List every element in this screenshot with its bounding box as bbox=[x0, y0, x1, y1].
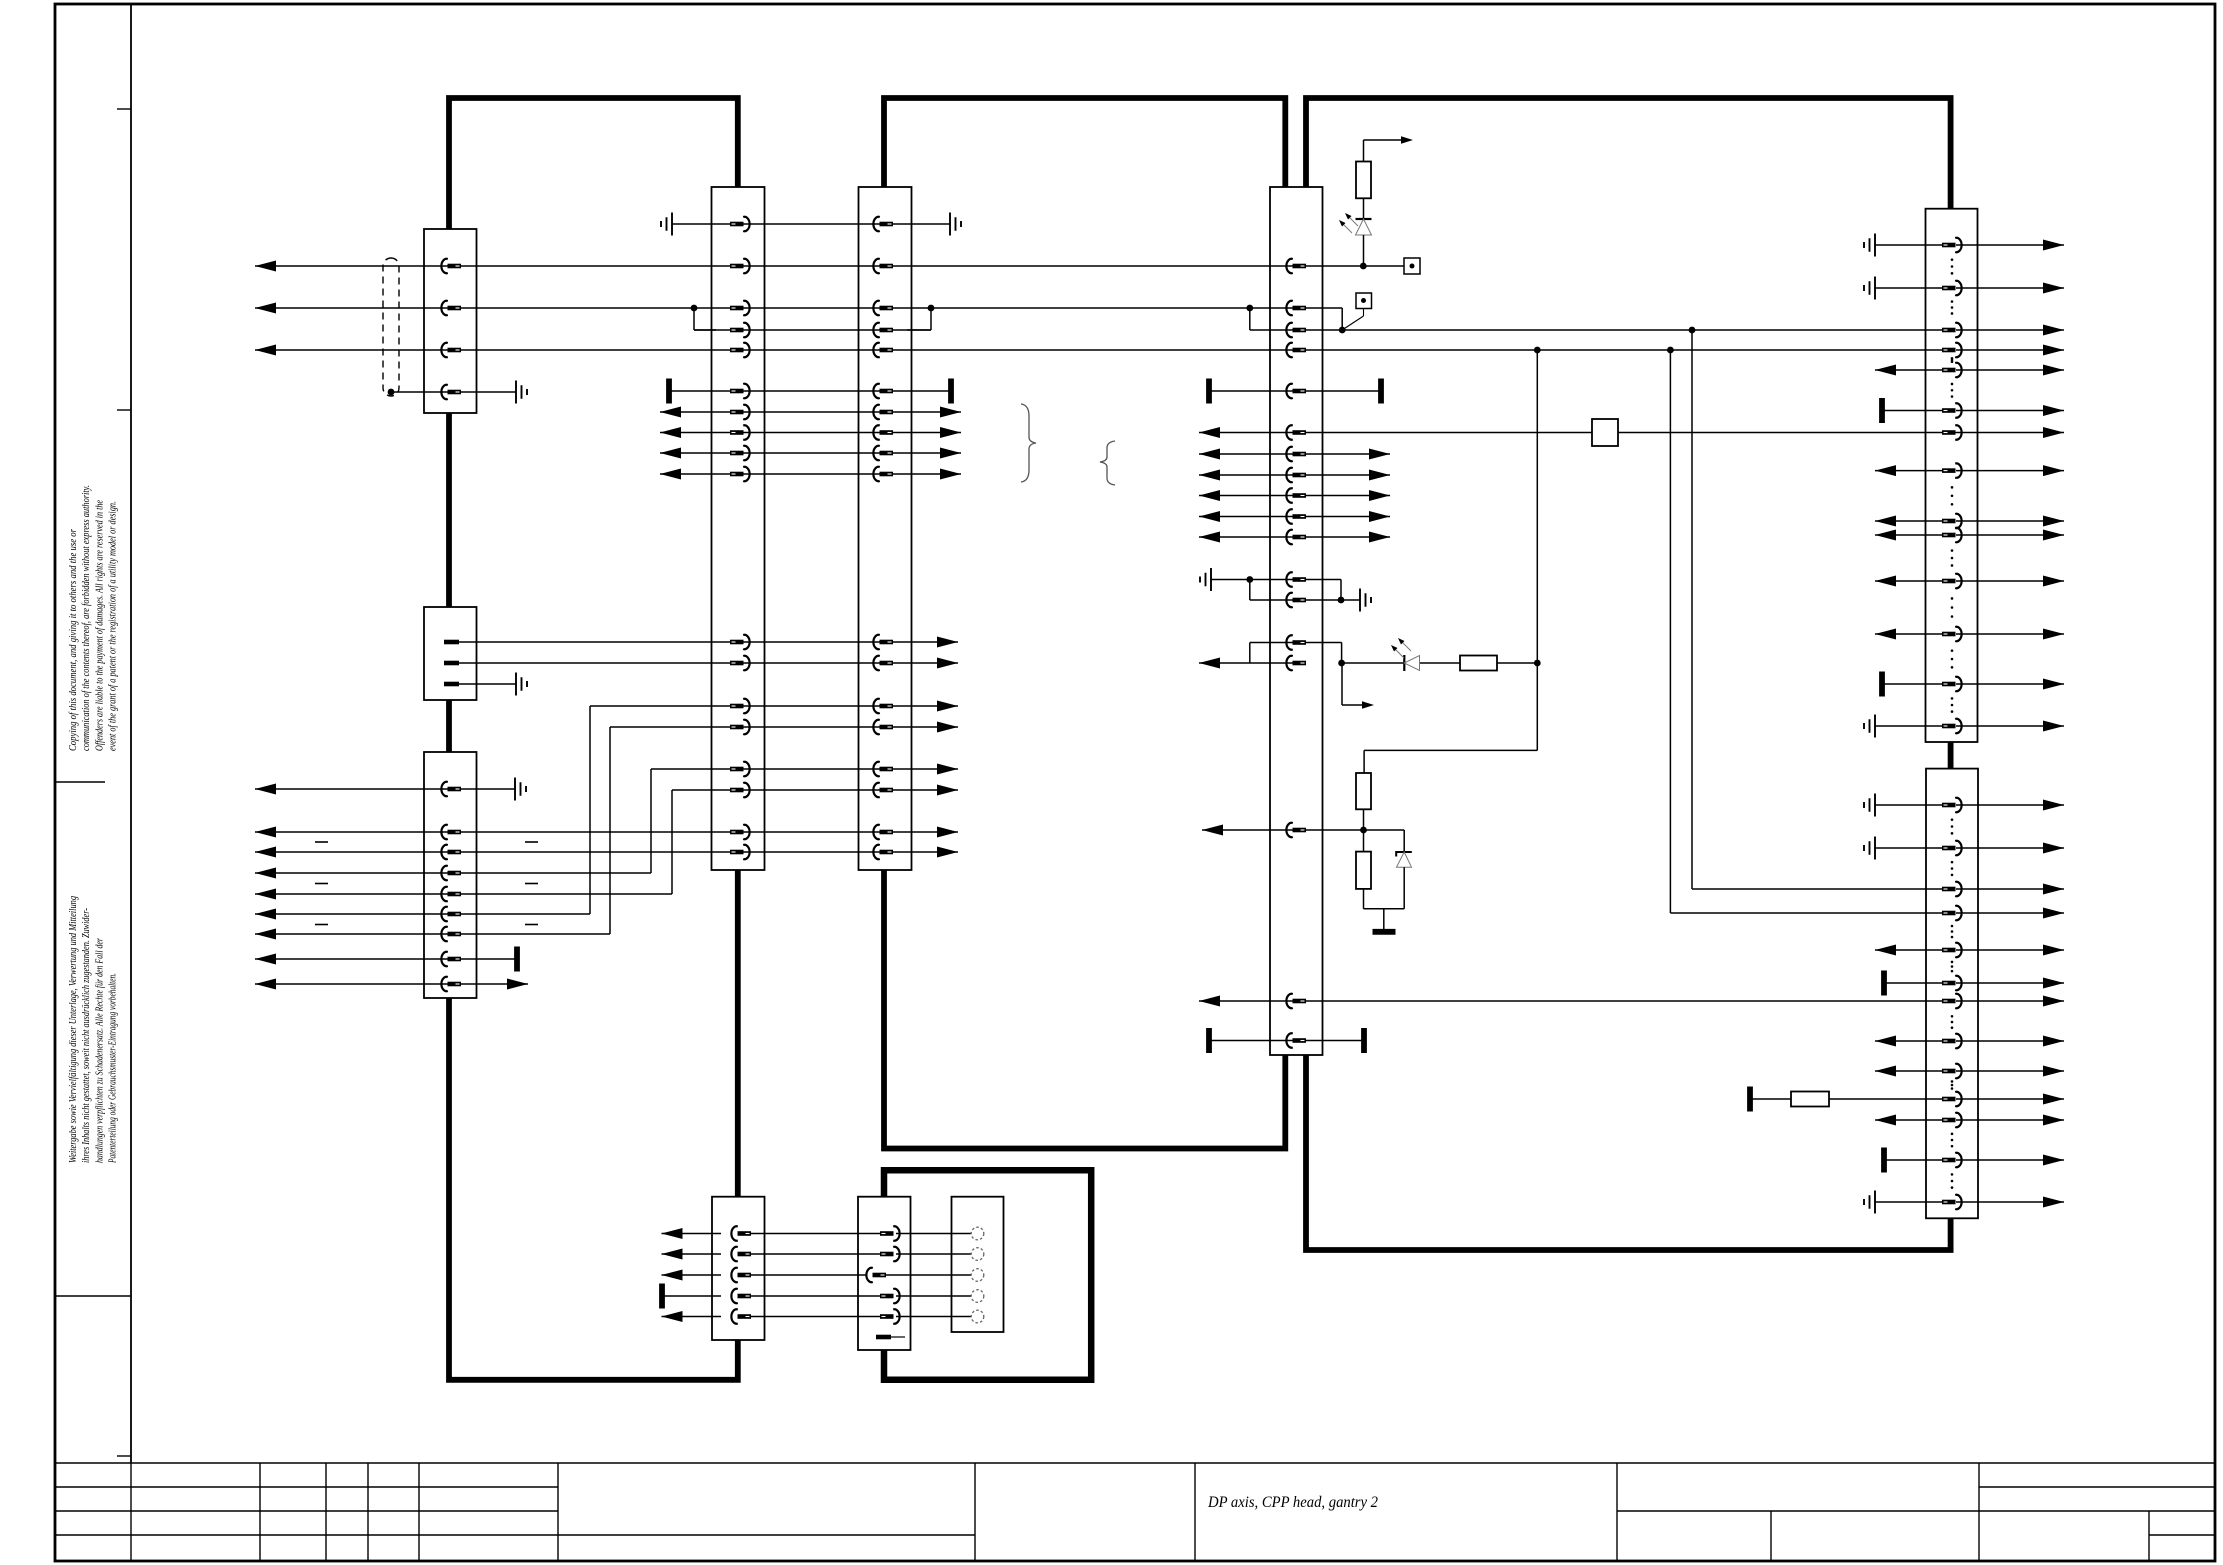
wire row 1254 X9-X11 bbox=[662, 1249, 972, 1260]
pin X6.9 bbox=[1286, 488, 1306, 502]
pin X6.17 bbox=[1286, 994, 1306, 1008]
svg-text:ihres Inhalts nicht gestattet,: ihres Inhalts nicht gestattet, soweit ni… bbox=[81, 908, 92, 1163]
pin X1.3 bbox=[441, 343, 461, 357]
thick bus X3 bottom loop to X9 bottom bbox=[449, 998, 738, 1380]
shield capsule of cable at X1 bbox=[383, 258, 399, 396]
wire row 370 X7.5 bbox=[1875, 365, 2064, 376]
pin X4.2 bbox=[730, 259, 750, 273]
pin X3.9 bbox=[441, 977, 461, 991]
pin X10.2 bbox=[880, 1247, 900, 1261]
pin X6.1 bbox=[1286, 259, 1306, 273]
pin X1.1 bbox=[441, 259, 461, 273]
svg-text:Copying of this document, and: Copying of this document, and giving it … bbox=[68, 529, 79, 751]
pin X9.4 bbox=[731, 1289, 751, 1303]
wire row 537 arrows X6 bbox=[1199, 532, 1390, 543]
pin X8.2 bbox=[1942, 841, 1962, 855]
pin X2.2 (plain) bbox=[444, 661, 459, 666]
wire row 1160 X8.12 bbox=[1884, 1148, 2064, 1173]
wire row 1040.5 X6.18 term-term bbox=[1209, 1028, 1364, 1053]
ground right of X1.4 bbox=[516, 381, 527, 404]
wire row 642.5 X6.14 bbox=[1250, 643, 1305, 664]
pin X8.11 bbox=[1942, 1113, 1962, 1127]
svg-text:handlungen verpflichten zu Sch: handlungen verpflichten zu Schadenersatz… bbox=[94, 938, 105, 1163]
pin X4.4 bbox=[730, 323, 750, 337]
pin X6.11 bbox=[1286, 530, 1306, 544]
pin X6.3 bbox=[1286, 323, 1306, 337]
elbow right X6.12 to gnd bbox=[1305, 580, 1371, 612]
pin X6.13 bbox=[1286, 593, 1306, 607]
wire row 727 riser to arrow bbox=[610, 722, 958, 733]
pin X8.1 bbox=[1942, 798, 1962, 812]
junction row 663 bbox=[1338, 660, 1345, 667]
wire row 950 X8.5 bbox=[1875, 945, 2064, 956]
pin separator dots X7 bbox=[1951, 258, 1954, 713]
pin X5.15 bbox=[873, 762, 893, 776]
pin X5.9 bbox=[873, 446, 893, 460]
terminator left row391 bbox=[666, 379, 672, 404]
pin X3.5 bbox=[441, 887, 461, 901]
pin X6.2 bbox=[1286, 301, 1306, 315]
pin X7.8 bbox=[1942, 463, 1962, 477]
pin X4.18 bbox=[730, 845, 750, 859]
wire row 852 X3 through X4/X5 bbox=[255, 847, 958, 858]
pin X5.4 bbox=[873, 323, 893, 337]
wire row 412 arrows X4/X5 bbox=[660, 407, 961, 418]
pin X4.8 bbox=[730, 425, 750, 439]
pin X8.10 bbox=[1942, 1092, 1962, 1106]
pin X10.4 bbox=[880, 1289, 900, 1303]
pin X7.4 bbox=[1942, 343, 1962, 357]
wire row 1001 X6.17 to X8.7 bbox=[1199, 996, 1942, 1007]
wire row 330 short X4.4-X5.4 bbox=[694, 329, 931, 331]
thick shield bus X1-X4 top loop bbox=[449, 98, 738, 229]
lamp contact X11.2 bbox=[971, 1248, 984, 1261]
svg-text:Offenders are liable to the pa: Offenders are liable to the payment of d… bbox=[94, 500, 105, 751]
pin X5.11 bbox=[873, 635, 893, 649]
pin X3.1 bbox=[441, 782, 461, 796]
pin X8.13 bbox=[1942, 1195, 1962, 1209]
pin X8.6 bbox=[1942, 976, 1962, 990]
pin X5.18 bbox=[873, 845, 893, 859]
riser wire x610 X3.7 to row727 bbox=[609, 727, 611, 934]
wire row 330 X6.3 to X7.3 bbox=[1250, 329, 1942, 331]
lamp contact X11.4 bbox=[971, 1290, 984, 1303]
pin X8.8 bbox=[1942, 1034, 1962, 1048]
pin X6.6 bbox=[1286, 425, 1306, 439]
wire row 684 X2.3 to ground bbox=[446, 683, 516, 685]
connector X1 box bbox=[424, 229, 477, 413]
wire row 894 X3.5 to riser bbox=[255, 889, 672, 900]
thick bus X5 bottom loop to X6 bottom left bbox=[884, 870, 1285, 1149]
wire row 634 X7.12 bbox=[1875, 629, 2064, 640]
wire row 392 shield to ground bbox=[388, 389, 516, 396]
svg-text:Patenterteilung oder Gebrauchs: Patenterteilung oder Gebrauchsmuster-Ein… bbox=[108, 973, 119, 1164]
wire row 470.6 X7.8 bbox=[1875, 465, 2064, 476]
pin X5.5 bbox=[873, 343, 893, 357]
lamp contact X11.3 bbox=[971, 1269, 984, 1282]
spare pin X10.6 bbox=[876, 1335, 905, 1340]
LED V1 (emitting diode) bbox=[1339, 198, 1372, 266]
wire row 790 riser to arrow bbox=[672, 785, 958, 796]
pin X4.16 bbox=[730, 783, 750, 797]
curly brace left bbox=[1100, 441, 1115, 485]
wire R3 to row 830 bbox=[1363, 809, 1365, 830]
wire row 475 arrows X6 bbox=[1199, 470, 1390, 481]
title block grid bbox=[55, 1463, 2215, 1561]
pin X6.10 bbox=[1286, 509, 1306, 523]
test point TP2 with diagonal bbox=[1339, 293, 1372, 333]
wire row 663 from X2 bbox=[446, 658, 958, 669]
wire row 959 X3.8 to terminator bbox=[255, 947, 517, 972]
pin X7.9 bbox=[1942, 514, 1962, 528]
wire row 984 X3.9 both arrows bbox=[255, 979, 528, 990]
lamp contact X11.5 bbox=[971, 1310, 984, 1323]
elbow X6.2 right to test point bbox=[1305, 308, 1342, 330]
pin X7.13 bbox=[1942, 677, 1962, 691]
wire row 769 riser to arrow bbox=[651, 764, 958, 775]
wire row 308 bbox=[255, 307, 1305, 309]
arrow row 350 bbox=[255, 345, 276, 356]
pin X4.13 bbox=[730, 699, 750, 713]
pin X6.14 bbox=[1286, 635, 1306, 649]
svg-text:DP axis, CPP head, gantry 2: DP axis, CPP head, gantry 2 bbox=[1207, 1494, 1378, 1511]
elbow right X6.14 bbox=[1305, 643, 1342, 664]
wire row 832 X3 through X4/X5 bbox=[255, 827, 958, 838]
connector X8 box bbox=[1926, 769, 1978, 1219]
junction drop to LED row bbox=[1534, 347, 1541, 663]
wire riser x1537 to resistor R3 bbox=[1364, 663, 1537, 773]
wire row 873 X3.4 to riser bbox=[255, 868, 651, 879]
pin X3.7 bbox=[441, 927, 461, 941]
pin X5.1 bbox=[873, 217, 893, 231]
thick enclosure frame around X10/X11 bbox=[884, 1170, 1091, 1380]
pin X2.1 (plain) bbox=[444, 640, 459, 645]
wire row 391 term-term bbox=[669, 390, 951, 392]
wire row 454 arrows X6 bbox=[1199, 449, 1390, 460]
wire row 516.5 arrows X6 bbox=[1199, 511, 1390, 522]
pin X10.5 bbox=[880, 1309, 900, 1323]
pin X1.2 bbox=[441, 301, 461, 315]
wire row 266 bbox=[255, 265, 1404, 267]
svg-text:Weitergabe sowie Vervielfältig: Weitergabe sowie Vervielfältigung dieser… bbox=[68, 896, 79, 1163]
connector X3 box bbox=[424, 752, 477, 998]
connector X9 box bbox=[712, 1197, 765, 1340]
pin X3.3 bbox=[441, 845, 461, 859]
pin X5.17 bbox=[873, 825, 893, 839]
resistor R5 bbox=[1791, 1092, 1829, 1107]
pin X5.10 bbox=[873, 467, 893, 481]
ground right of X3.1 bbox=[515, 778, 526, 801]
riser wire x590 X3.6 to row706 bbox=[589, 706, 591, 914]
resistor R4 bbox=[1356, 830, 1371, 909]
wire row 1296 X9-X11 bbox=[662, 1284, 971, 1309]
wire row 432.5 X6.6 to X7.7 bbox=[1199, 427, 2064, 438]
arrow row 1001 right bbox=[1956, 996, 2064, 1007]
pin X5.6 bbox=[873, 384, 893, 398]
resistor R3 bbox=[1356, 773, 1371, 809]
pin X8.3 bbox=[1942, 882, 1962, 896]
wire row 432.5 arrows X4/X5 bbox=[660, 427, 961, 438]
pin X6.4 bbox=[1286, 343, 1306, 357]
test point TP1 bbox=[1404, 258, 1420, 274]
pin X7.5 bbox=[1942, 363, 1962, 377]
wire row 1041 X8.8 bbox=[1875, 1036, 2064, 1047]
pin separator dots X8 bbox=[1951, 818, 1954, 1189]
pin X7.2 bbox=[1942, 281, 1962, 295]
resistor R2 bbox=[1460, 656, 1497, 671]
pin X4.5 bbox=[730, 343, 750, 357]
wire row 410.5 X7.6 bbox=[1882, 398, 2064, 423]
pin X4.15 bbox=[730, 762, 750, 776]
pin X8.12 bbox=[1942, 1153, 1962, 1167]
wire row 983 X8.6 bbox=[1884, 971, 2064, 996]
pin X4.11 bbox=[730, 635, 750, 649]
pin X6.8 bbox=[1286, 468, 1306, 482]
wire row 245 X7.1 bbox=[1864, 234, 2064, 257]
wire row 706 riser to arrow bbox=[590, 701, 958, 712]
pin X6.7 bbox=[1286, 447, 1306, 461]
wire row 535 X7.10 bbox=[1875, 530, 2064, 541]
thick bus X7 bottom to X8 top bbox=[1948, 742, 1954, 769]
pin X4.12 bbox=[730, 656, 750, 670]
wire row 288 X7.2 bbox=[1864, 277, 2064, 300]
wire row 453 arrows X4/X5 bbox=[660, 448, 961, 459]
pin X6.18 bbox=[1286, 1033, 1306, 1047]
pin X6.15 bbox=[1286, 656, 1306, 670]
pin X4.6 bbox=[730, 384, 750, 398]
wire row 391 X6.5 term-term bbox=[1209, 379, 1381, 404]
thick bus X6 bottom right loop to X8 bottom bbox=[1306, 1055, 1951, 1250]
wire row 581 X7.11 bbox=[1875, 576, 2064, 587]
pin X7.12 bbox=[1942, 627, 1962, 641]
margin copyright text (german) bbox=[68, 896, 119, 1164]
inline device box row 432.5 bbox=[1592, 419, 1618, 446]
wire row 830 X6.16 bbox=[1202, 825, 1367, 836]
elbow to zener VD1 bbox=[1364, 830, 1405, 852]
arrow row 889 right bbox=[1956, 884, 2064, 895]
junction LED drop row 266 bbox=[1360, 263, 1367, 270]
pin X6.5 bbox=[1286, 384, 1306, 398]
wire row 848 X8.2 bbox=[1864, 837, 2064, 860]
wire row 642 from X2 bbox=[446, 637, 958, 648]
pin X5.16 bbox=[873, 783, 893, 797]
arrow stub above resistor R1 bbox=[1364, 136, 1414, 161]
pin X8.7 bbox=[1942, 994, 1962, 1008]
connector X10 box bbox=[858, 1197, 911, 1350]
frame tick marks on margin column bbox=[55, 109, 131, 1456]
connector X11 box (lamp block) bbox=[952, 1197, 1004, 1332]
wire LED segment row 663 bbox=[1342, 660, 1541, 667]
connector X6 box bbox=[1270, 187, 1323, 1055]
ground left of X4.1 bbox=[661, 213, 672, 236]
connector X7 box bbox=[1926, 209, 1978, 742]
thick bus X9 top to X4 bottom bbox=[735, 870, 741, 1197]
pin X5.8 bbox=[873, 425, 893, 439]
ground right of X2.3 bbox=[516, 673, 527, 696]
connector X5 box bbox=[859, 187, 912, 870]
wire row 495.5 arrows X6 bbox=[1199, 490, 1390, 501]
pin X7.10 bbox=[1942, 528, 1962, 542]
wire row 521 X7.9 bbox=[1875, 516, 2064, 527]
pin X10.3 bbox=[866, 1268, 886, 1282]
margin copyright text (english) bbox=[68, 485, 119, 751]
riser wire x672 X3.5 to row790 bbox=[671, 790, 673, 894]
pin X3.8 bbox=[441, 952, 461, 966]
wire row 350 full width bbox=[255, 349, 1942, 351]
pin X5.2 bbox=[873, 259, 893, 273]
wire row 1099 X8.10 bbox=[1750, 1087, 2064, 1112]
pin X4.1 bbox=[730, 217, 750, 231]
wire row 224 gnd-gnd bbox=[672, 223, 950, 225]
thick bus X1 bottom to X2 top bbox=[446, 413, 452, 607]
pin X4.7 bbox=[730, 405, 750, 419]
pin X9.1 bbox=[731, 1226, 751, 1240]
pin X9.3 bbox=[731, 1268, 751, 1282]
pin X5.3 bbox=[873, 301, 893, 315]
wire row 1202 X8.13 bbox=[1864, 1191, 2064, 1214]
pin X5.7 bbox=[873, 405, 893, 419]
arrow row 350 right bbox=[2043, 345, 2064, 356]
arrow row 266 bbox=[255, 261, 276, 272]
svg-text:event of the grant of a patent: event of the grant of a patent or the re… bbox=[108, 501, 119, 751]
pin X10.1 bbox=[880, 1226, 900, 1240]
wire row 805 X8.1 bbox=[1864, 794, 2064, 817]
pin X3.4 bbox=[441, 866, 461, 880]
pin X7.1 bbox=[1942, 238, 1962, 252]
wire row 726 X7.14 bbox=[1864, 715, 2064, 738]
junction and elbow to X5.4 bbox=[907, 305, 934, 330]
pin X4.9 bbox=[730, 446, 750, 460]
wire row 1071 X8.9 bbox=[1875, 1066, 2064, 1077]
pin X5.12 bbox=[873, 656, 893, 670]
pin X5.14 bbox=[873, 720, 893, 734]
terminator right row391 bbox=[948, 379, 954, 404]
junction row330 drop to X8.3 bbox=[1689, 327, 1942, 889]
pin X4.3 bbox=[730, 301, 750, 315]
connector X2 box bbox=[424, 607, 477, 700]
arrow row 330 right bbox=[2043, 325, 2064, 336]
pin X4.17 bbox=[730, 825, 750, 839]
arrow row 913 right bbox=[1956, 908, 2064, 919]
thick shield bus X5-X6 top loop bbox=[884, 98, 1285, 187]
pin X8.4 bbox=[1942, 906, 1962, 920]
pin X8.9 bbox=[1942, 1064, 1962, 1078]
wire row 914 X3.6 to riser bbox=[255, 909, 590, 920]
thick shield bus X6-X7 top loop bbox=[1306, 98, 1951, 209]
curly brace right bbox=[1021, 404, 1036, 482]
wire row 1120 X8.11 bbox=[1875, 1115, 2064, 1126]
LED V2 (emitting diode) bbox=[1391, 638, 1420, 671]
riser wire x651 X3.4 to row769 bbox=[650, 769, 652, 873]
zener diode VD1 bbox=[1396, 852, 1412, 909]
pin X7.14 bbox=[1942, 719, 1962, 733]
pin X6.12 bbox=[1286, 572, 1306, 586]
resistor R1 bbox=[1356, 162, 1371, 199]
pin X7.3 bbox=[1942, 323, 1962, 337]
wire row 1316.5 X9-X11 bbox=[662, 1311, 972, 1322]
junction and elbow to X4.4 bbox=[691, 305, 716, 330]
pin X7.11 bbox=[1942, 574, 1962, 588]
pin X4.14 bbox=[730, 720, 750, 734]
pin X8.5 bbox=[1942, 943, 1962, 957]
join and chassis ground bbox=[1364, 909, 1405, 932]
pin X4.10 bbox=[730, 467, 750, 481]
wire row 474 arrows X4/X5 bbox=[660, 469, 961, 480]
pin X9.5 bbox=[731, 1309, 751, 1323]
ground right of X5.1 bbox=[950, 213, 961, 236]
wire row 1275 X9-X11 bbox=[662, 1270, 972, 1281]
junction drop to X8.4 bbox=[1667, 347, 1942, 913]
junction and elbow to X6.3 bbox=[1246, 305, 1253, 330]
wire row 600 X6.13 gnd bbox=[1250, 599, 1341, 601]
pin X1.4 bbox=[441, 385, 461, 399]
arrow row 308 bbox=[255, 303, 276, 314]
pin X6.16 bbox=[1286, 823, 1306, 837]
lamp contact X11.1 bbox=[971, 1227, 984, 1240]
pin X3.2 bbox=[441, 825, 461, 839]
pin X2.3 (plain) bbox=[444, 682, 459, 687]
wire row 663 X6.15 bbox=[1199, 658, 1305, 669]
svg-text:communication of the contents: communication of the contents thereof, a… bbox=[81, 485, 92, 751]
pin X9.2 bbox=[731, 1247, 751, 1261]
connector X4 box bbox=[712, 187, 765, 870]
pin X3.6 bbox=[441, 907, 461, 921]
arrow stub below X6.15 bbox=[1342, 663, 1374, 709]
thick bus X2 bottom to X3 top bbox=[446, 700, 452, 752]
wire row 684 X7.13 bbox=[1882, 672, 2064, 697]
wire row 934 X3.7 to riser bbox=[255, 929, 610, 940]
wire row 1233.5 X9-X11 bbox=[662, 1228, 972, 1239]
pair marker dashes X3 bbox=[315, 842, 538, 925]
pin X7.6 bbox=[1942, 403, 1962, 417]
wire row 789 X3.1 bbox=[255, 784, 515, 795]
pin X5.13 bbox=[873, 699, 893, 713]
pin X7.7 bbox=[1942, 425, 1962, 439]
wire row 579.5 X6.12 gnd bbox=[1200, 568, 1305, 600]
